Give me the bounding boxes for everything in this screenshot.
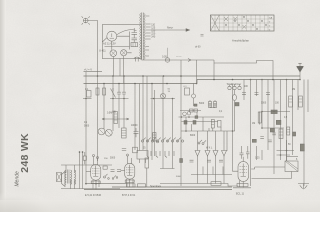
wire segment y98 mid (110, 98, 129, 100)
small marks near mains (201, 35, 204, 37)
capacitor block in PSU (132, 28, 138, 40)
mains plug icon (82, 16, 90, 24)
svg-text:0,25: 0,25 (255, 158, 260, 160)
trimmer circle 1 (183, 112, 187, 116)
voltage table (211, 15, 275, 31)
svg-text:5000: 5000 (261, 103, 267, 105)
paper cap dark 2 (193, 121, 196, 125)
loudspeaker (57, 172, 66, 187)
extra tiny value labels (110, 56, 298, 162)
caps right (242, 93, 270, 95)
tube V3 (238, 157, 249, 188)
PSU internal wires (105, 32, 135, 53)
cap outline mid-block (218, 121, 222, 128)
power supply box (102, 25, 141, 59)
wire under tube1 (85, 183, 128, 185)
pickup jack oval (233, 95, 237, 101)
svg-text:Sperrkreis: Sperrkreis (150, 185, 162, 188)
svg-text:2M: 2M (292, 89, 295, 91)
IF coil hatched b (214, 102, 217, 108)
caps above tube V3 (240, 152, 250, 155)
wires mid block (181, 84, 235, 152)
extra junction dots (180, 75, 301, 132)
vertical wire x135 (134, 84, 136, 151)
bus A (84, 75, 301, 77)
resistor right hatched 2 (299, 96, 303, 107)
tube V3 grid wire (233, 152, 239, 172)
resistor v right (258, 112, 261, 123)
svg-text:240: 240 (151, 36, 156, 39)
fuse (165, 58, 169, 62)
svg-text:mA: mA (269, 16, 273, 19)
junction blob (270, 128, 274, 132)
wire step right (214, 60, 273, 80)
relay box near x186 (185, 88, 190, 95)
dark mark y117 (195, 116, 198, 119)
switch mark on mains line (188, 59, 191, 62)
pot knob 1 (98, 128, 105, 135)
plug symbol St (134, 57, 140, 62)
svg-text:5000: 5000 (176, 176, 182, 178)
svg-text:Anschlußplan: Anschlußplan (232, 39, 249, 43)
measure arrow (102, 118, 129, 120)
output transformer box (137, 151, 148, 160)
svg-text:—·—: —·— (176, 56, 182, 59)
dark mark right mid (293, 132, 296, 136)
vertical wire x154 (154, 90, 156, 156)
pot circle (161, 94, 166, 99)
vertical wire x119 (118, 84, 120, 91)
antenna (297, 63, 304, 79)
svg-text:5000: 5000 (84, 126, 90, 128)
capacitor on wire x135 (133, 147, 138, 153)
svg-text:ECL 11: ECL 11 (236, 193, 245, 196)
wire y121.5 (181, 121, 218, 123)
capacitor mid (134, 128, 139, 137)
grid resistor (145, 158, 149, 168)
svg-text:5000: 5000 (110, 158, 116, 160)
svg-text:U 411: U 411 (99, 49, 106, 53)
IF coil hatched a (209, 102, 212, 108)
resistor hatched mid (122, 128, 127, 138)
svg-text:0,5M: 0,5M (107, 113, 112, 115)
tube V3 anode wire (251, 167, 285, 169)
heater wire run (142, 59, 215, 61)
coupling cap dark 1 (271, 110, 277, 114)
label U wave (84, 68, 92, 72)
vertical wire x113 (112, 76, 114, 131)
wire pickup down (234, 101, 236, 132)
vertical wire x104 (103, 84, 105, 130)
wire into rectifier (102, 38, 107, 42)
vertical wire x163 (162, 76, 164, 156)
small rect part (103, 166, 107, 169)
wires right mid (260, 112, 291, 129)
svg-text:W K L: W K L (206, 148, 213, 150)
wire under tubes (84, 187, 232, 190)
scale lamp 1 (110, 50, 117, 57)
wire PSU to buses (113, 56, 123, 84)
resistor hatched mid-block (211, 120, 214, 129)
tube V3 base box (237, 184, 248, 187)
power transformer secondary winding (144, 14, 145, 60)
wires to box (140, 159, 146, 163)
small parts left of tube1 (83, 156, 86, 160)
band switch lower contacts (147, 151, 174, 158)
caps cluster right-mid (260, 133, 276, 142)
vertical wire x147 (146, 76, 148, 151)
resistor right hatched 1 (289, 96, 293, 107)
extra right verticals (268, 80, 308, 162)
connector triangles (195, 151, 227, 157)
wire y110 (180, 110, 201, 112)
rectifier tube AZ11 (107, 31, 117, 41)
tube V2 output (125, 154, 135, 187)
wire y156 right (287, 156, 299, 158)
power transformer primary winding (140, 14, 141, 60)
svg-text:dr 60: dr 60 (195, 46, 201, 49)
speaker transformer (68, 170, 70, 184)
switch contact dots (104, 174, 118, 179)
vertical wire x143 (142, 76, 144, 150)
bus B (197, 79, 300, 81)
speaker vertical wires (66, 152, 83, 189)
resistor on x104 (103, 88, 106, 95)
tube V1 base (91, 181, 100, 183)
vertical wire x172 (172, 99, 174, 157)
trimmer circle 2 (187, 111, 191, 115)
tube V1 EF (91, 155, 101, 190)
wire segment y98 (151, 98, 176, 100)
svg-text:+U ≈ V: +U ≈ V (84, 68, 92, 72)
transformer taps (145, 16, 150, 56)
wire y117 (179, 116, 225, 118)
ground chassis (298, 184, 309, 190)
labels right top (261, 89, 295, 105)
svg-text:AZ 11 6,3V: AZ 11 6,3V (103, 42, 116, 46)
dark mark (252, 139, 256, 142)
vertical wire x139 (139, 84, 141, 151)
svg-text:1M: 1M (252, 123, 255, 125)
terminal box right (285, 161, 298, 172)
wires above tube V3 area (257, 146, 263, 160)
junction blob top (194, 104, 197, 106)
parts on verticals y159 (180, 159, 183, 163)
vertical wire x97 (97, 72, 99, 161)
stepped bottom wire right (160, 156, 238, 186)
title 248 WK vertical (15, 133, 32, 187)
junction dots bus (97, 75, 274, 84)
small circle near x193 (192, 94, 196, 98)
power transformer core (142, 13, 144, 61)
wave switch contacts mid (198, 140, 206, 145)
switch S1 (111, 88, 116, 98)
vertical wire x181 (180, 60, 182, 186)
wire tube1 grid (86, 171, 91, 173)
hatched part right mid (287, 127, 290, 135)
wire under tube V3 (233, 187, 251, 189)
small component box b (194, 109, 198, 112)
dark resistor low (300, 144, 304, 151)
capacitor on wire x124 (122, 149, 126, 151)
small component box a (190, 109, 194, 112)
bus C (84, 80, 198, 84)
vertical wire x152 (151, 84, 153, 161)
svg-text:B 57,4 D 61: B 57,4 D 61 (122, 194, 136, 197)
resistor on x97 (96, 88, 99, 95)
coupling cap dark 2 (276, 120, 281, 124)
label boxes on bottom bus (127, 184, 135, 187)
vertical wire x86 (85, 72, 87, 184)
paper cap dark 1 (184, 121, 187, 125)
svg-text:0,05: 0,05 (162, 56, 167, 59)
tube V2 base (125, 180, 134, 182)
scale lamp 2 (121, 50, 127, 56)
wire tube2 grid (121, 170, 125, 172)
svg-text:Netz: Netz (167, 25, 173, 29)
dark blob under jack (235, 103, 239, 106)
wires right low (277, 151, 295, 156)
mains cord arrow (151, 29, 186, 31)
wire mains lead (88, 21, 98, 72)
capacitor pair C (117, 90, 126, 97)
table caption (232, 39, 249, 43)
svg-text:E 5,41 D 6546: E 5,41 D 6546 (85, 194, 102, 197)
wire drops right-mid (274, 140, 287, 174)
small caps between tubes (111, 170, 122, 172)
svg-text:10000: 10000 (131, 125, 138, 127)
loudspeaker wires (61, 165, 120, 189)
vertical wire x124 (119, 76, 124, 128)
wire segment y98 left (83, 98, 92, 100)
vertical wire x196 (196, 60, 198, 84)
svg-text:8000: 8000 (190, 135, 196, 137)
pot knob 2 (105, 129, 112, 136)
resistor on x154 (153, 133, 156, 142)
band switch contact row (141, 138, 183, 142)
field coil (75, 170, 76, 184)
value labels mid-left (84, 113, 138, 128)
wire top-left stub (84, 71, 103, 73)
resistor in PSU (131, 43, 138, 47)
svg-text:5000: 5000 (199, 103, 205, 105)
electrolytic right (279, 129, 283, 139)
resistor R near x88 (87, 91, 92, 98)
svg-text:248 WK: 248 WK (19, 133, 31, 173)
svg-text:Tonabnehmer: Tonabnehmer (227, 83, 242, 86)
pickup sockets (227, 83, 242, 86)
svg-text:Mende: Mende (15, 171, 21, 187)
resistor vertical hatched (114, 112, 117, 124)
right section verticals (244, 80, 304, 187)
wire arc rectifier to caps (117, 30, 137, 35)
